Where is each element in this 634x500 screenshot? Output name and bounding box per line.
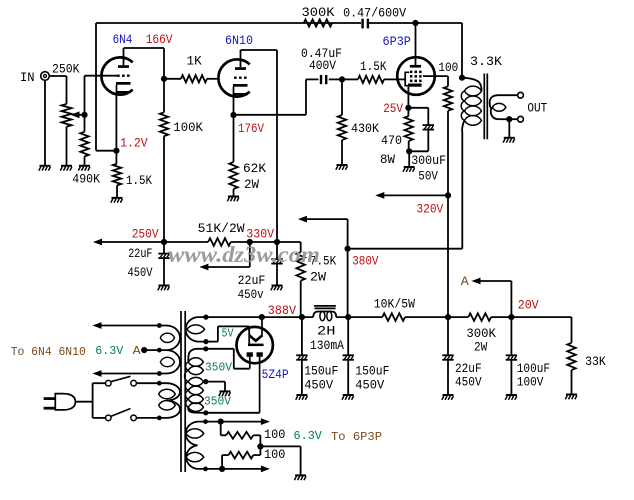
svg-text:2H: 2H: [317, 325, 336, 339]
node 176V cathode junction: [230, 112, 264, 136]
node 25V cathode junction: [383, 101, 411, 116]
wire 330V row to 7.5K: [277, 242, 301, 252]
svg-text:320V: 320V: [416, 202, 443, 217]
svg-text:51K/2W: 51K/2W: [198, 222, 245, 236]
svg-text:22uF: 22uF: [238, 274, 266, 288]
wire 6N10 plate up and over down to 330V rail: [241, 50, 278, 242]
node choke input junction: [299, 314, 305, 320]
choke 2H/130mA filter: [310, 306, 345, 353]
heater winding 6.3V output (bottom): [186, 419, 208, 471]
svg-text:25V: 25V: [383, 101, 403, 116]
ground below 22uF screen: [442, 395, 454, 400]
svg-text:450V: 450V: [355, 379, 384, 393]
label 6P3P: [383, 34, 412, 49]
label 350V lower: [204, 395, 232, 409]
wire 6N10 cathode lead to 176V node: [233, 95, 235, 115]
wire HV top to rectifier left anode: [206, 349, 250, 369]
node IN label: [20, 71, 35, 85]
svg-text:350V: 350V: [204, 395, 232, 409]
svg-text:100uF: 100uF: [517, 362, 550, 376]
svg-text:380V: 380V: [352, 254, 378, 269]
svg-text:450V: 450V: [128, 266, 153, 280]
heater winding 6.3V preamp (left top): [145, 323, 180, 376]
resistor 470/8W cathode bias: [380, 108, 413, 167]
wire 6P3P grid lead: [398, 78, 406, 80]
svg-text:2W: 2W: [474, 340, 488, 354]
wire 20V node to 33K: [511, 317, 571, 343]
svg-text:6N4: 6N4: [113, 32, 133, 47]
wire choke to 10K: [336, 316, 382, 318]
watermark www.dz3w.com: [168, 242, 320, 267]
svg-text:450V: 450V: [455, 376, 482, 390]
ground below 22uF 330V: [271, 286, 283, 291]
svg-text:IN: IN: [20, 71, 35, 85]
svg-text:330V: 330V: [246, 226, 274, 241]
wire top rail down to output transformer primary top: [461, 23, 463, 78]
resistor 100K plate load 6N4: [160, 79, 204, 242]
node wiper junction: [81, 112, 87, 118]
ground below 470/300uF: [403, 167, 415, 172]
pentode 6P3P: [397, 57, 435, 95]
resistor 100 humdinger upper: [221, 422, 286, 447]
label 388V: [268, 303, 297, 318]
svg-text:400V: 400V: [309, 59, 336, 73]
svg-text:166V: 166V: [146, 32, 173, 47]
wire OPT primary bottom to 380V line: [348, 132, 463, 249]
wire coupling cap to grid node: [329, 78, 342, 80]
resistor 490K grid leak: [72, 115, 100, 187]
svg-text:20V: 20V: [518, 298, 539, 313]
node 5V winding top junction: [203, 315, 208, 320]
output transformer core: [484, 74, 487, 140]
arrow 330V feed pointing left: [199, 242, 249, 270]
svg-text:100: 100: [438, 61, 458, 75]
node 6N4 plate / 1K junction: [161, 76, 167, 82]
wire 6N4 plate up and over to plate load node: [124, 48, 165, 79]
ground below 150uF input: [296, 395, 308, 400]
svg-text:388V: 388V: [268, 303, 297, 318]
high voltage winding 350V-0-350V: [185, 346, 209, 415]
svg-text:5Z4P: 5Z4P: [262, 367, 289, 382]
wire 6.3V bottom lead with arrow: [206, 466, 270, 473]
node 320V branch: [445, 192, 451, 198]
node 6P3P grid leak junction: [339, 76, 345, 82]
svg-text:2W: 2W: [244, 178, 259, 192]
svg-text:50V: 50V: [418, 169, 438, 183]
svg-text:1.5K: 1.5K: [126, 174, 152, 188]
wire 6N4 cathode lead down to 1.2V node: [115, 93, 117, 151]
node humdinger top junction: [218, 419, 224, 425]
node 250V junction: [161, 239, 167, 245]
ground below 1.5K: [111, 198, 123, 203]
svg-text:176V: 176V: [238, 121, 264, 136]
resistor 100 screen stopper: [438, 61, 458, 111]
svg-text:OUT: OUT: [527, 100, 547, 115]
svg-text:www.dz3w.com: www.dz3w.com: [168, 242, 320, 267]
resistor 300K (feedback): [302, 6, 336, 27]
svg-text:62K: 62K: [243, 162, 266, 176]
ground below 430K: [336, 165, 348, 170]
svg-text:1.5K: 1.5K: [360, 60, 387, 74]
ground below 490K: [78, 166, 90, 171]
node humdinger bottom junction: [219, 466, 225, 472]
wire wiper to 6N4 grid: [85, 76, 118, 115]
arrow heater supply bottom pointing left: [93, 370, 160, 377]
label 350V upper: [205, 361, 233, 375]
svg-text:1.2V: 1.2V: [120, 135, 148, 150]
resistor 62K/2W cathode load 6N10: [229, 115, 266, 197]
potentiometer wiper arrow: [71, 111, 85, 118]
node junction top wire to 6P3P plate: [412, 20, 418, 26]
resistor 100 humdinger lower: [222, 446, 285, 469]
svg-text:6N10: 6N10: [225, 33, 253, 48]
power transformer core: [181, 311, 185, 472]
svg-text:22uF: 22uF: [455, 362, 482, 376]
svg-text:A: A: [133, 344, 142, 358]
svg-text:A: A: [461, 274, 469, 289]
rectifier filament winding 5V: [186, 317, 235, 344]
ground below potentiometer: [60, 166, 72, 171]
ground below input jack: [39, 80, 51, 170]
wire HV center tap to ground: [206, 382, 225, 392]
node choke output junction: [345, 314, 351, 320]
output transformer secondary winding: [490, 95, 518, 119]
svg-text:350V: 350V: [205, 361, 233, 375]
wire screen line down to B+ row (320V): [447, 111, 449, 317]
potentiometer 250K volume: [52, 62, 80, 165]
ground below humdinger: [294, 475, 306, 480]
svg-text:450v: 450v: [238, 288, 264, 302]
triode 6N10: [218, 33, 253, 97]
ground below 22uF 250V: [158, 286, 170, 291]
wire to ground below 470: [408, 151, 410, 167]
svg-text:10K/5W: 10K/5W: [374, 298, 416, 312]
svg-text:To 6N4 6N10: To 6N4 6N10: [11, 345, 86, 359]
svg-text:33K: 33K: [585, 354, 606, 369]
arrow node A pointing left: [461, 274, 481, 289]
node 1.2V cathode junction: [96, 135, 148, 153]
node 20V junction: [508, 298, 539, 321]
ground below OPT secondary: [503, 138, 515, 143]
svg-text:To 6P3P: To 6P3P: [331, 430, 382, 444]
svg-text:130mA: 130mA: [310, 339, 345, 353]
resistor 1.5K grid stopper 6P3P: [342, 60, 398, 83]
svg-text:100: 100: [264, 448, 285, 462]
resistor 430K grid leak 6P3P: [338, 79, 380, 165]
node OPT primary top junction: [459, 75, 465, 81]
resistor 10K/5W filter: [374, 298, 448, 321]
resistor 51K/2W decoupling: [164, 222, 277, 246]
ground below 33K: [565, 395, 577, 400]
switch pole top: [106, 376, 160, 386]
svg-text:490K: 490K: [72, 173, 100, 187]
wire plug to double pole switch: [93, 383, 106, 418]
svg-text:300K: 300K: [466, 327, 496, 341]
label OUT: [527, 100, 547, 115]
svg-text:3.3K: 3.3K: [470, 54, 502, 69]
wire 6.3V top lead with arrow: [206, 418, 270, 425]
label 6.3V heater: [95, 344, 124, 358]
label 330V: [246, 226, 274, 241]
capacitor 0.47uF/400V coupling: [301, 47, 342, 84]
wire 6P3P screen grid to 100 ohm resistor: [423, 76, 448, 86]
ground below 100uF: [505, 395, 517, 400]
arrow 380V feed pointing left: [298, 216, 348, 223]
input jack connector: [41, 72, 50, 81]
capacitor 22uF/450V at 250V node: [128, 242, 170, 286]
node cathode network bottom junction: [406, 148, 412, 154]
svg-text:100K: 100K: [173, 121, 203, 135]
wire input jack to potentiometer top: [49, 76, 66, 104]
wire 380V line vertical: [347, 219, 349, 317]
label 166V plate voltage: [146, 32, 173, 47]
arrow heater supply top pointing left: [93, 322, 160, 329]
node screen supply junction: [445, 314, 451, 320]
svg-text:6.3V: 6.3V: [294, 429, 323, 443]
svg-text:150uF: 150uF: [355, 365, 389, 379]
node 380V junction: [345, 246, 379, 269]
triode 6N4: [101, 32, 132, 95]
resistor 1.5K cathode bias 6N4: [113, 151, 153, 198]
switch pole bottom: [106, 409, 160, 421]
wire 6P3P cathode lead down to 25V node: [407, 87, 409, 108]
resistor 33K bleeder: [567, 343, 606, 395]
ground below 62K: [227, 197, 239, 202]
terminal OUT bottom: [518, 116, 524, 122]
svg-text:250V: 250V: [132, 226, 159, 241]
node humdinger center: [257, 443, 263, 449]
wire secondary to ground: [508, 119, 510, 138]
wire feedback vertical down to 6N4 cathode node: [95, 23, 97, 151]
resistor 300K/2W bleeder: [448, 313, 511, 354]
mains primary winding: [157, 381, 180, 420]
resistor 7.5K/2W dropping: [297, 252, 337, 317]
label 6.3V output heater: [294, 429, 323, 443]
svg-text:250K: 250K: [52, 62, 80, 76]
svg-text:470: 470: [381, 134, 402, 148]
wire humdinger center to ground: [260, 446, 300, 475]
wire 5V winding bottom to rectifier filament: [206, 326, 249, 343]
svg-text:450V: 450V: [304, 379, 333, 393]
label 5Z4P: [262, 367, 289, 382]
svg-text:2W: 2W: [310, 271, 327, 285]
rectifier 5Z4P: [237, 317, 273, 413]
svg-text:300K: 300K: [302, 6, 336, 20]
node A heater tap: [133, 344, 148, 358]
capacitor 150uF/450V input filter: [296, 317, 338, 395]
wire top feedback rail from node above 6P3P plate to left edge: [96, 22, 462, 24]
capacitor 300uF/50V cathode bypass: [408, 108, 446, 184]
svg-text:1K: 1K: [187, 54, 203, 68]
node rectifier cathode junction: [259, 314, 265, 320]
svg-text:0.47/600V: 0.47/600V: [343, 6, 406, 20]
svg-text:100: 100: [264, 428, 285, 442]
capacitor 22uF/450v at 330V node: [238, 242, 283, 302]
wire rectifier output row: [206, 316, 313, 318]
ground HV center tap: [219, 391, 231, 396]
node 330V branch to arrow: [247, 239, 253, 245]
node 330V junction 6N10 plate: [274, 239, 280, 245]
mains plug: [44, 394, 93, 410]
svg-text:8W: 8W: [380, 153, 395, 167]
svg-text:300uF: 300uF: [411, 154, 446, 168]
svg-text:100V: 100V: [517, 376, 544, 390]
label To 6N4 6N10 heater: [11, 345, 86, 359]
wire 6N10 cathode output to coupling cap: [234, 79, 319, 114]
svg-text:5V: 5V: [222, 327, 235, 341]
capacitor 22uF/450V screen filter: [442, 317, 482, 395]
capacitor 0.47/600V (feedback): [343, 6, 406, 28]
ground below 150uF second: [342, 395, 354, 400]
resistor 1K coupling to 6N10 grid: [164, 54, 218, 82]
capacitor 100uF/100V bias filter: [506, 317, 550, 395]
svg-text:6P3P: 6P3P: [383, 34, 412, 49]
svg-text:150uF: 150uF: [304, 365, 338, 379]
wire HV bottom to rectifier right anode: [206, 412, 260, 414]
svg-text:430K: 430K: [351, 122, 379, 136]
node A branch wire: [480, 281, 512, 317]
arrow 320V pointing left: [375, 192, 448, 217]
label To 6P3P: [331, 430, 382, 444]
terminal OUT top: [518, 92, 524, 98]
capacitor 150uF/450V second filter: [343, 317, 390, 395]
svg-text:6.3V: 6.3V: [95, 344, 124, 358]
wire 6P3P plate lead to top rail: [415, 23, 417, 65]
node secondary ground junction: [506, 116, 517, 122]
output transformer primary winding 3.3K: [461, 54, 502, 132]
svg-text:22uF: 22uF: [128, 247, 152, 261]
arrow 250V rail pointing left: [93, 226, 164, 245]
